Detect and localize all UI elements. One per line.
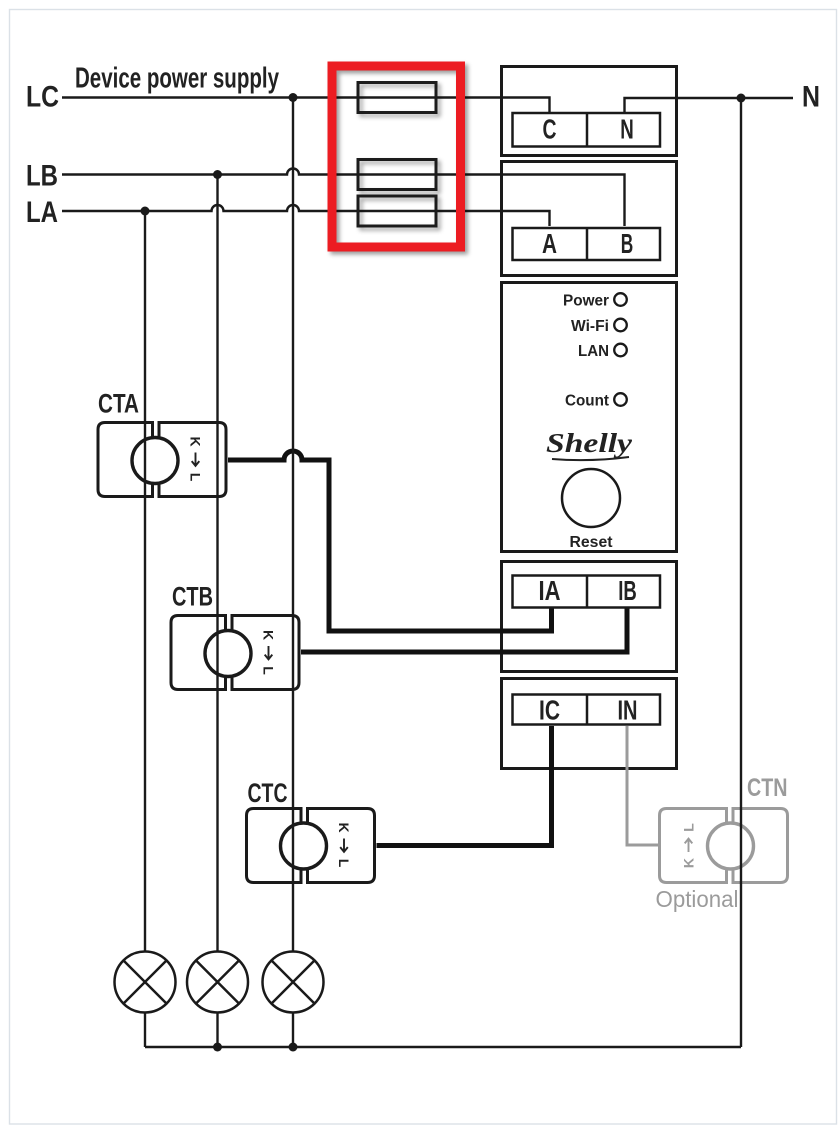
wire N line to terminal N [625,98,794,112]
svg-text:Shelly: Shelly [546,428,633,458]
CTC K->L label [336,822,352,867]
svg-text:K: K [188,436,204,446]
junction dot LA drop [141,207,150,216]
Reset button [562,469,620,527]
thick wire CTA to IA [228,451,552,631]
svg-text:LA: LA [26,196,58,229]
svg-text:IC: IC [539,695,560,726]
thick wire CTC to IC [377,726,552,846]
svg-text:Optional: Optional [656,886,739,912]
gray wire IN to CTN [627,726,658,845]
lamp B [187,952,248,1013]
svg-text:L: L [336,859,352,868]
svg-text:CTN: CTN [747,774,788,802]
svg-text:A: A [542,228,557,259]
svg-text:N: N [620,114,634,145]
lamp C [263,952,324,1013]
device section S5 (IC/IN terminals) [502,679,677,769]
svg-text:LB: LB [26,160,58,193]
terminal box C/N [513,113,661,147]
device section S1 (C/N terminals) [502,67,677,156]
fuse F1 on LC [358,83,436,113]
device section S2 (A/B terminals) [502,162,677,276]
LED LAN [614,344,627,357]
svg-text:IB: IB [618,575,637,606]
junction dot LB drop [213,170,222,179]
svg-text:CTC: CTC [248,778,288,808]
svg-text:B: B [621,228,634,259]
vertical supply line LB phase [216,175,218,953]
vertical supply line LC phase [292,98,294,953]
fuse F2 on LB [358,160,436,190]
svg-text:Device power supply: Device power supply [75,63,279,95]
junction dot bottom C [289,1043,298,1052]
svg-text:Power: Power [563,293,609,310]
wire LC to terminal C [62,98,550,113]
fuse F3 on LA [358,196,436,226]
svg-text:L: L [261,666,277,675]
lamp B stem [216,1012,218,1047]
svg-text:IA: IA [539,575,561,606]
svg-text:K: K [261,630,277,640]
CTN K->L label [681,823,697,868]
vertical supply line N [740,98,742,1047]
CT clamp CTA body [98,423,226,497]
svg-text:Wi-Fi: Wi-Fi [571,318,609,335]
junction dot LC drop [289,93,298,102]
LED Wi-Fi [614,319,627,332]
bottom return wire [145,1046,741,1048]
junction dot bottom B [213,1043,222,1052]
CTA K->L label [188,436,204,481]
svg-text:K: K [336,822,352,832]
junction dot N [737,94,746,103]
svg-text:LAN: LAN [578,343,609,360]
lamp C stem [292,1012,294,1047]
svg-text:IN: IN [618,695,638,726]
wire LA to terminal A (hops over LB and LC drops) [62,205,550,226]
svg-text:LC: LC [26,81,59,114]
svg-text:K: K [681,858,697,868]
LED Count [614,393,627,406]
thick wire CTB to IB [301,608,627,652]
CTB K->L label [261,630,277,675]
vertical supply line LA phase [144,211,146,952]
lamp A [115,952,176,1013]
CT clamp CTB body [171,616,299,690]
terminal box IA/IB [513,576,661,608]
CT clamp CTC body [247,809,375,883]
svg-text:L: L [188,473,204,482]
terminal box A/B [513,228,661,260]
CT clamp CTN body (optional, gray, mirrored) [660,809,788,883]
svg-text:CTB: CTB [172,582,213,612]
svg-text:L: L [681,823,697,832]
Shelly logo [546,428,633,460]
red highlight box around fuses [332,66,461,247]
svg-text:Reset: Reset [570,534,614,551]
svg-text:Count: Count [565,393,610,410]
lamp A stem [144,1012,146,1047]
wire LB to terminal B (hop over LC drop) [62,169,625,227]
device section S3 (main body) [502,283,677,552]
svg-text:CTA: CTA [98,389,139,419]
LED Power [614,293,627,306]
terminal box IC/IN [513,695,661,725]
device section S4 (IA/IB terminals) [502,562,677,672]
svg-text:C: C [543,114,557,145]
svg-text:N: N [802,81,820,114]
